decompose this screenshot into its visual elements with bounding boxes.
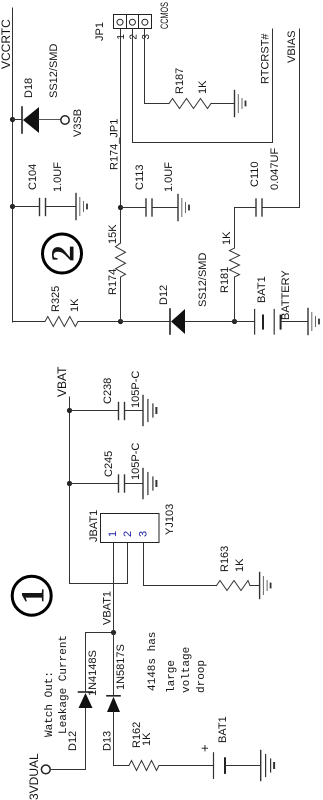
net VBAT rail [55,366,70,584]
resistor R187 1K [169,68,211,109]
capacitor C245 105P-C [70,443,144,492]
wire D12 cathode to VBAT1 node [86,633,114,693]
wire R162 to BAT1 [159,765,214,767]
svg-text:droop: droop [196,660,208,693]
svg-text:1N5817S: 1N5817S [115,644,127,690]
note text 4148s has large voltage droop [147,632,208,693]
wire 3VDUAL to D12 anode [50,708,85,770]
ground for BAT1 (top) [308,309,319,335]
svg-text:4148s has: 4148s has [147,632,159,691]
svg-text:2: 2 [128,34,139,40]
svg-text:BAT1: BAT1 [217,716,229,743]
svg-text:D18: D18 [23,78,35,98]
svg-text:1K: 1K [221,231,233,245]
svg-text:+: + [197,744,212,752]
svg-text:D12: D12 [158,285,170,305]
connector JP1 CCMOS [94,2,171,41]
net VBIAS stub [286,29,300,208]
svg-text:R325: R325 [50,286,62,312]
net VCCRTC power rail [0,8,13,322]
ground for R163 [260,573,271,599]
svg-text:R163: R163 [219,546,231,572]
svg-text:D13: D13 [102,731,114,751]
capacitor C113 1.0UF [121,162,179,216]
svg-text:1K: 1K [197,80,209,94]
svg-text:C238: C238 [102,378,114,404]
ground for C104 [76,194,87,220]
resistor R162 1K [129,722,159,771]
net 3VDUAL off-page [27,753,50,800]
svg-text:C104: C104 [27,164,39,190]
svg-text:3: 3 [137,531,149,537]
svg-text:1N4148S: 1N4148S [87,650,99,696]
net RTCRST# stub [260,29,273,143]
svg-text:CCMOS: CCMOS [159,2,171,29]
resistor R181 1K [219,231,240,293]
svg-text:1K: 1K [69,298,81,312]
battery BAT1 (bottom section) with + [197,716,261,778]
svg-text:1.0UF: 1.0UF [163,162,175,192]
svg-text:105P-C: 105P-C [130,371,142,408]
capacitor C104 1.0UF [13,162,77,216]
svg-text:R174: R174 [107,269,119,295]
svg-text:3: 3 [141,34,152,40]
svg-text:BAT1: BAT1 [256,276,268,303]
svg-text:1.0UF: 1.0UF [52,162,64,192]
diode D18 SS12/SMD [13,44,61,133]
svg-text:R181: R181 [219,267,231,293]
battery BAT1 BATTERY (top section) [235,270,309,334]
junction on VCCRTC rail at C104 [10,204,15,209]
junction dot C113 tap on R174_JP1 wire [118,205,123,210]
wire R187 to ground [211,103,235,105]
svg-text:1K: 1K [141,732,153,746]
junction dot C245 on VBAT [67,481,72,486]
diode D13 1N5817S [102,644,128,765]
svg-text:VBIAS: VBIAS [286,31,298,63]
svg-text:1: 1 [116,34,127,40]
wire JP1 pin3 to R187 [145,29,170,104]
svg-text:VBAT: VBAT [55,366,69,397]
wire R181 to C110 [235,208,257,249]
svg-text:0.047UF: 0.047UF [269,148,281,190]
svg-text:C245: C245 [103,451,115,477]
diode D12 1N4148S (bottom section) [67,650,99,751]
node A junction dot (R174 wire meets battery column) [118,319,123,324]
junction dot on VBAT1 wire [111,630,116,635]
svg-text:RTCRST#: RTCRST# [260,33,272,84]
resistor R174 15K [107,224,126,295]
capacitor C110 0.047UF [249,148,300,216]
wire VCCRTC rail to R325 [13,321,46,323]
wire VBAT to JBAT1 pin2 [70,543,128,584]
ground for C238 [143,396,156,426]
svg-text:voltage: voltage [181,647,193,693]
svg-text:YJ103: YJ103 [164,504,176,535]
wire JBAT1 pin1 net VBAT1 [102,543,114,696]
svg-text:VBAT1: VBAT1 [102,591,114,625]
note text Watch Out: Leakage Current [44,635,70,737]
svg-text:JP1: JP1 [94,22,106,41]
ground for BAT1 (bottom) [261,751,274,781]
section bubble 2 [43,234,82,273]
svg-text:R187: R187 [174,68,186,94]
ground for C245 [143,469,156,499]
svg-text:1: 1 [107,531,119,537]
resistor R325 1K [45,286,81,327]
svg-text:3VDUAL: 3VDUAL [27,753,41,800]
wire JP1 pin2 to RTCRST# [133,29,273,143]
svg-text:large: large [166,660,178,693]
resistor R163 1K [217,546,251,591]
wire node A to R174 [120,277,122,322]
wire R163 to ground [250,585,260,587]
svg-text:1: 1 [16,587,52,604]
wire node B to R181 [234,277,236,322]
svg-text:105P-C: 105P-C [130,443,142,480]
capacitor C238 105P-C [70,371,144,420]
svg-text:VCCRTC: VCCRTC [0,19,13,69]
svg-text:2: 2 [122,531,134,537]
svg-text:SS12/SMD: SS12/SMD [197,253,209,307]
connector JBAT1 YJ103 [88,504,176,543]
svg-text:Leakage Current: Leakage Current [58,635,70,734]
svg-text:C113: C113 [134,165,146,190]
junction dot C238 on VBAT [67,408,72,413]
svg-text:C110: C110 [249,162,261,187]
svg-text:1K: 1K [234,558,246,572]
svg-text:Watch Out:: Watch Out: [44,671,56,737]
wire JBAT1 pin3 to R163 [144,543,217,586]
node B junction dot (R181 wire meets battery column) [232,319,237,324]
wire D13 anode to R162 [114,765,130,767]
svg-text:R174_JP1: R174_JP1 [109,119,121,170]
svg-text:JBAT1: JBAT1 [88,510,100,542]
wire R325 to node A [78,321,121,323]
ground for R187 [235,91,246,117]
svg-text:2: 2 [46,245,82,262]
section bubble 1 [12,576,51,615]
svg-text:BATTERY: BATTERY [280,270,292,320]
ground for C113 [178,195,189,221]
wire R174 to JP1 pin 1, net R174_JP1 [109,29,121,243]
svg-text:15K: 15K [107,224,119,244]
diode D12 SS12/SMD (top section) [121,253,235,334]
off-page connector circle V3SB [61,109,84,137]
junction on VCCRTC rail at D18 [10,117,15,122]
svg-text:SS12/SMD: SS12/SMD [48,44,60,98]
svg-text:V3SB: V3SB [72,109,84,137]
